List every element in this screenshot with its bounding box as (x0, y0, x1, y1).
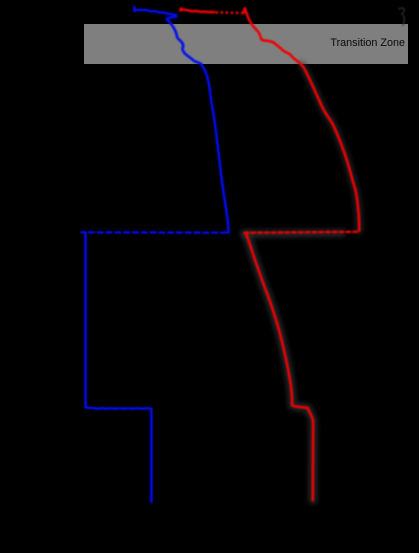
transition zone band (84, 24, 408, 64)
P-wave top dotted part (217, 11, 244, 14)
faint dark glyph fragment top right (399, 8, 404, 26)
halo artifact along CMB dotted jump (244, 233, 342, 234)
S-wave CMB jump (dashed) (82, 231, 227, 234)
S-wave top segment (crust/upper mantle) (134, 7, 228, 232)
Transition Zone label (330, 37, 405, 49)
P-wave CMB jump (dotted) (244, 232, 358, 233)
halo artifact along P-wave mantle descent (302, 65, 359, 231)
S-wave outer core (zero) + ICB jump + inner core (86, 233, 152, 503)
P-wave mantle descent (244, 8, 360, 230)
P-wave top segment (181, 9, 215, 13)
halo artifact along P-wave outer core and inner core (246, 234, 313, 501)
P-wave outer core (246, 234, 313, 501)
